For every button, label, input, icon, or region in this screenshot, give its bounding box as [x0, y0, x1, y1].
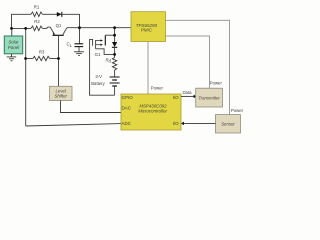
node dot source [113, 53, 116, 56]
wire R3 to Q1 base node [50, 58, 59, 60]
svg-text:PMIC: PMIC [141, 28, 153, 33]
resistor R3 [33, 50, 50, 61]
label Power (sensor) [231, 108, 244, 113]
node dot C1 top [78, 26, 81, 29]
PMIC U1 TPS65290 [131, 12, 166, 42]
svg-text:GPIO: GPIO [122, 95, 134, 100]
solar panel wire from node down [11, 28, 13, 36]
svg-text:Microcontroller: Microcontroller [138, 109, 167, 114]
node dot R3 right [57, 57, 60, 60]
svg-text:I/O: I/O [173, 95, 180, 100]
gate wire from battery minus up to MOSFET gate [90, 39, 115, 95]
capacitor C1 stem [79, 28, 81, 44]
wire PMIC power down to MCU [147, 42, 149, 95]
ground below C1 [74, 47, 84, 56]
node dot R3 left [24, 57, 27, 60]
wire R2 row [12, 27, 32, 29]
svg-text:R2: R2 [34, 19, 40, 24]
wire R3 row left [26, 58, 33, 60]
svg-text:3-V: 3-V [95, 74, 102, 79]
svg-text:Transmitter: Transmitter [198, 95, 220, 100]
wire sensor to ADC arrow [181, 122, 216, 126]
wire R1 to diode [42, 13, 57, 15]
svg-text:R3: R3 [39, 50, 45, 55]
wire R2 to Q1 base-left stub [42, 27, 50, 28]
node dot diode column rail [113, 26, 116, 29]
label Data [182, 90, 192, 95]
svg-text:Sensor: Sensor [221, 122, 235, 127]
svg-text:Battery: Battery [91, 81, 105, 86]
MOSFET source link to diode column [96, 49, 115, 55]
node dot left column top [24, 27, 27, 30]
svg-text:Data: Data [182, 90, 192, 95]
wire top rail left segment [12, 14, 32, 28]
node dot drain [113, 34, 116, 37]
svg-text:R1: R1 [34, 4, 40, 9]
svg-text:Q1: Q1 [56, 23, 62, 28]
wire PMIC to transmitter power [166, 36, 210, 88]
resistor R1 [31, 4, 42, 16]
wire battery minus down [114, 86, 116, 95]
resistor Rd [106, 58, 117, 71]
wire mid rail [67, 27, 131, 29]
ground below solar panel [7, 54, 17, 61]
svg-text:Solar: Solar [8, 39, 19, 44]
wire diode to Rd [114, 47, 116, 57]
solar panel [4, 36, 22, 54]
svg-text:Power: Power [210, 80, 223, 85]
wire diode to corner down to mid rail [62, 14, 80, 27]
svg-text:I/O: I/O [173, 121, 180, 126]
svg-text:G1: G1 [95, 52, 101, 57]
node dot solar top [10, 27, 13, 30]
wire data arrow MCU to transmitter [181, 95, 197, 99]
wire PMIC to sensor power [166, 20, 230, 114]
battery B1 [91, 74, 119, 86]
resistor R2 [31, 19, 42, 31]
diode D1 [57, 12, 62, 17]
svg-text:Power: Power [231, 108, 244, 113]
microcontroller U2 MSP430C092 [121, 94, 181, 130]
MOSFET G1 [95, 35, 106, 57]
capacitor C1 [67, 42, 84, 48]
svg-text:Power: Power [151, 85, 164, 90]
transmitter [196, 88, 223, 107]
wire node down to level shifter [58, 59, 60, 87]
svg-text:Panel: Panel [8, 45, 20, 50]
level shifter [50, 86, 73, 100]
wire level shifter to DAC [61, 101, 122, 113]
wire ADC bottom rail [26, 124, 121, 126]
svg-text:DAC: DAC [122, 105, 132, 110]
diode D2 vertical [112, 42, 117, 47]
label Power (MCU) [151, 85, 164, 90]
left column vertical wire [25, 28, 27, 126]
svg-text:ADC: ADC [122, 121, 132, 126]
wire diode column top [114, 28, 116, 42]
wire Q1 base down to R3 node [58, 36, 60, 59]
label Power (transmitter) [210, 80, 223, 85]
sensor [216, 115, 241, 133]
MOSFET drain link to diode column [105, 34, 114, 36]
wire Rd to battery [114, 70, 116, 77]
transistor Q1 [50, 23, 67, 35]
svg-text:Shifter: Shifter [54, 94, 67, 99]
